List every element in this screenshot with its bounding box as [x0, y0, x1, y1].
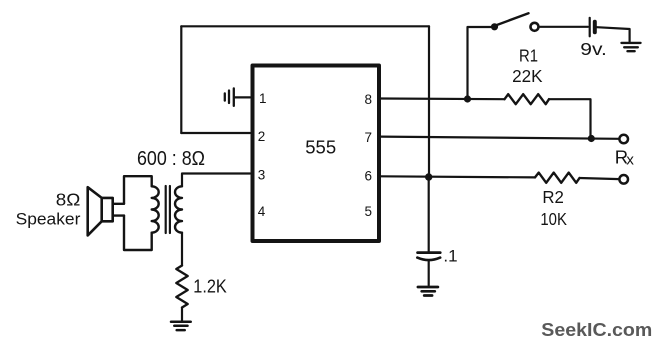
wire right riser top to pin6 node: [428, 26, 430, 177]
wire pin 6 left part: [381, 176, 535, 177]
svg-text:Speaker: Speaker: [16, 210, 81, 229]
svg-text:2: 2: [258, 129, 266, 144]
switch S1 throw terminal: [531, 23, 539, 31]
capacitor C1 .1: [417, 253, 440, 261]
battery B1 9v: [590, 18, 595, 37]
transformer T1 primary coil: [152, 186, 159, 232]
svg-text:600 : 8Ω: 600 : 8Ω: [137, 147, 205, 170]
ground at battery: [622, 43, 641, 51]
wire top horizontal: [181, 25, 429, 27]
op-amp/timer IC U1 555 body: [253, 66, 380, 242]
svg-text:.1: .1: [443, 247, 457, 266]
wire pin 8: [381, 97, 505, 100]
wire cap to ground: [428, 260, 430, 285]
speaker LS1 cone: [88, 187, 102, 235]
transformer T1 core: [166, 186, 170, 233]
svg-text:R2: R2: [542, 187, 564, 207]
node junction dot pin8/switch: [464, 95, 471, 102]
wire switch riser: [468, 27, 492, 99]
svg-text:R1: R1: [519, 45, 538, 65]
switch S1 pole dot: [491, 23, 498, 30]
svg-text:22K: 22K: [512, 66, 543, 86]
ground at capacitor: [418, 287, 438, 296]
svg-text:4: 4: [258, 204, 266, 219]
svg-text:5: 5: [365, 204, 373, 219]
transformer T1 primary frame: [124, 176, 152, 250]
svg-text:1: 1: [259, 91, 267, 106]
wire cap riser: [428, 177, 430, 251]
wire R1 to pin7 line: [549, 99, 591, 138]
wire pin 7 to Rx terminal: [381, 137, 620, 139]
wire secondary to 1.2K resistor: [181, 233, 183, 266]
node junction dot R1/pin7: [588, 135, 595, 142]
svg-text:555: 555: [305, 137, 336, 158]
speaker LS1 driver box: [102, 198, 113, 221]
svg-text:8Ω: 8Ω: [56, 189, 81, 209]
ground at pin 1: [225, 88, 234, 106]
switch S1 blade: [496, 13, 529, 25]
transformer T1 secondary coil: [175, 186, 182, 232]
resistor R1 22K zigzag: [505, 94, 550, 104]
wire switch to battery: [539, 26, 588, 28]
wire 1.2K to ground: [181, 308, 183, 321]
wire pin 1 stub: [235, 96, 251, 98]
svg-text:7: 7: [365, 130, 373, 145]
svg-text:SeekIC.com: SeekIC.com: [541, 319, 652, 340]
svg-text:3: 3: [258, 168, 266, 183]
wire battery to ground: [597, 27, 630, 41]
wire speaker stubs: [113, 204, 125, 216]
wire R2 to Rx bottom terminal: [580, 178, 620, 179]
ground at 1.2K: [171, 322, 191, 330]
terminal Rx top: [619, 135, 628, 144]
resistor R2 10K zigzag: [535, 173, 580, 183]
svg-text:10K: 10K: [540, 209, 567, 229]
wire pin 3 to transformer secondary: [182, 174, 250, 187]
svg-text:6: 6: [365, 169, 373, 184]
svg-text:9v.: 9v.: [580, 39, 607, 59]
resistor R3 1.2K zigzag: [176, 266, 187, 308]
terminal Rx bottom: [619, 175, 628, 184]
svg-text:1.2K: 1.2K: [193, 276, 227, 297]
wire left riser pin2 to top: [180, 26, 182, 133]
wire pin 2 stub: [181, 132, 250, 134]
svg-text:8: 8: [365, 92, 373, 107]
svg-text:x: x: [626, 152, 634, 169]
node junction dot pin6/cap: [425, 173, 432, 180]
